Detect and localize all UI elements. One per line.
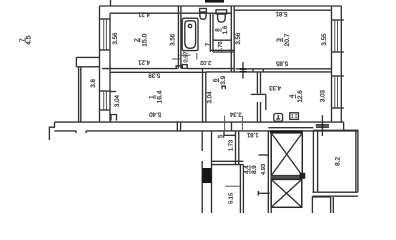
dim 3.04 room1 left	[114, 94, 121, 106]
window sill tick room1	[110, 91, 116, 93]
WC right wall	[230, 6, 232, 72]
vent block black bar top	[205, 0, 224, 3]
svg-text:2.02: 2.02	[200, 59, 211, 65]
label 5 lobby	[217, 134, 224, 138]
shaft divider wall	[271, 176, 302, 180]
svg-text:0.97: 0.97	[183, 51, 189, 62]
wire top inner wall left	[110, 12, 231, 14]
dim 3.56 room2 right	[170, 33, 177, 45]
svg-text:12.6: 12.6	[297, 90, 304, 103]
svg-text:3.56: 3.56	[170, 33, 177, 45]
junction marker 1	[242, 62, 244, 79]
wall between room 2 and room 1 upper line	[102, 68, 178, 70]
label corridor 6	[212, 75, 227, 84]
junction marker 2	[321, 115, 323, 136]
elevator shaft 1	[270, 130, 303, 133]
corridor band upper line	[55, 121, 344, 123]
kitchen sink	[274, 114, 283, 122]
svg-text:1.81: 1.81	[246, 131, 258, 138]
loggia top wall	[76, 56, 99, 58]
svg-text:3.56: 3.56	[112, 32, 119, 44]
dim 4.33 kitchen top	[268, 84, 280, 91]
dim 2.02 bathroom	[200, 59, 211, 65]
bathroom WC divider wall	[209, 13, 211, 52]
stair wall A	[201, 131, 203, 151]
svg-text:8.2: 8.2	[334, 157, 341, 166]
dim 4.21 room2 bottom	[137, 59, 149, 66]
dim 1.73 lobby	[228, 140, 234, 151]
svg-text:4.5: 4.5	[25, 35, 32, 45]
dim 3.03 kitchen right	[319, 89, 326, 101]
dim 5.81 room3 top	[275, 10, 287, 17]
short wall line lobby	[259, 154, 269, 156]
label loggia 3.8	[90, 79, 97, 88]
window room 1 glazing	[103, 91, 105, 110]
wire top inner wall right	[234, 9, 331, 11]
label kitchen 4	[289, 90, 304, 103]
label room 1	[149, 90, 164, 103]
svg-text:8.9: 8.9	[251, 165, 258, 174]
corridor door jambs	[75, 131, 77, 133]
wall B lower	[239, 165, 241, 213]
svg-text:5.15: 5.15	[229, 193, 235, 204]
room 8.2 left wall	[312, 130, 314, 192]
dim 5.15 hall	[229, 193, 235, 204]
dim 3.55 room3 right	[321, 33, 328, 45]
svg-text:4.93: 4.93	[261, 164, 267, 175]
svg-text:1.6: 1.6	[222, 25, 229, 34]
svg-text:3: 3	[276, 38, 283, 42]
svg-text:5.81: 5.81	[275, 10, 287, 17]
wire top outer wall	[100, 5, 342, 7]
apartment entry door jambs	[176, 122, 178, 131]
corridor left step	[49, 122, 54, 140]
svg-text:3.55: 3.55	[321, 33, 328, 45]
label hall 4.4 8.9	[244, 165, 258, 174]
wire left inner wall	[109, 13, 111, 122]
vestibule below 8.2	[312, 196, 330, 198]
svg-text:4.33: 4.33	[268, 84, 280, 91]
elevator hall front line	[268, 127, 313, 129]
svg-text:2: 2	[133, 38, 140, 42]
svg-text:4.21: 4.21	[137, 59, 149, 66]
dimension tick shaft	[258, 192, 270, 194]
room 8.2 bottom wall	[312, 191, 358, 193]
dim 4.21 room2 top	[137, 11, 149, 18]
svg-text:3.34: 3.34	[229, 111, 241, 118]
bathroom left wall	[177, 6, 179, 69]
label room 7 balcony	[19, 35, 33, 45]
svg-text:20.7: 20.7	[284, 33, 291, 46]
dim tick hall 5.15	[225, 185, 240, 187]
wall B	[235, 131, 237, 165]
svg-text:3.8: 3.8	[90, 79, 97, 88]
wire left outer wall	[99, 6, 101, 122]
elevator shaft 2	[271, 179, 302, 207]
label WC 8	[215, 25, 229, 34]
svg-text:5.85: 5.85	[275, 59, 287, 66]
svg-text:5.40: 5.40	[149, 111, 161, 118]
leader line a	[224, 116, 226, 132]
leader line b	[241, 116, 243, 131]
svg-text:3.03: 3.03	[319, 89, 326, 101]
dim 5.85 room3 bottom	[275, 59, 287, 66]
dim 3.56 room2 left	[112, 32, 119, 44]
bathroom door jamb	[176, 66, 181, 69]
right step outline	[344, 122, 359, 130]
svg-text:15.0: 15.0	[141, 33, 148, 46]
svg-text:3.04: 3.04	[207, 91, 214, 103]
svg-text:6: 6	[212, 78, 219, 82]
dim tick bathroom a	[172, 58, 181, 60]
dim 1.81 lobby	[246, 131, 258, 138]
room 1 right wall	[202, 69, 204, 122]
dim tick bathroom c	[196, 53, 198, 60]
WC bottom wall	[213, 39, 231, 41]
wall A black bar	[202, 168, 211, 183]
loggia left wall	[78, 67, 80, 122]
label room 2	[133, 33, 148, 46]
svg-text:4.21: 4.21	[137, 11, 149, 18]
wall room3 bottom	[236, 68, 332, 70]
dim tick bathroom b	[180, 54, 191, 56]
label room 3	[276, 33, 291, 46]
bathtub	[182, 18, 198, 50]
window room 2 glazing	[103, 19, 105, 50]
elevator shaft left wall	[267, 131, 269, 213]
bathroom door leaf	[182, 65, 187, 69]
svg-text:5.39: 5.39	[148, 71, 160, 78]
wall between room 2 and room 1 lower line	[110, 71, 206, 73]
door jambs room3	[252, 69, 254, 72]
wire stub above top wall	[110, 0, 112, 6]
dim 0.76 WC	[218, 41, 224, 52]
label room 8.2	[334, 157, 341, 166]
svg-text:3.04: 3.04	[114, 94, 121, 106]
lobby cell top wall	[224, 134, 236, 136]
kitchen stove	[290, 113, 299, 120]
dim 3.04 room1 right	[207, 91, 214, 103]
svg-text:4: 4	[289, 94, 296, 98]
dim 0.97 bathroom	[183, 51, 189, 62]
corridor band lower line	[55, 130, 77, 132]
svg-text:3.9: 3.9	[220, 75, 227, 84]
kitchen left wall	[256, 72, 258, 94]
svg-text:16.4: 16.4	[157, 90, 164, 103]
svg-text:1.73: 1.73	[228, 140, 234, 151]
svg-text:3.56: 3.56	[235, 32, 242, 44]
kitchen door leaf	[251, 93, 266, 95]
svg-text:0.76: 0.76	[218, 41, 224, 52]
label bathroom 7	[205, 42, 212, 46]
lobby cell bottom wall	[212, 160, 244, 162]
dim 3.56 room3 left	[235, 32, 242, 44]
dim 4.93 hall	[261, 164, 267, 175]
balcony door jamb room 1	[111, 115, 117, 121]
WC toilet	[216, 10, 227, 14]
right outer wall	[331, 6, 333, 122]
dim 5.40 room1 bottom	[149, 111, 161, 118]
window room 3	[334, 20, 336, 52]
small door bracket corridor	[222, 86, 225, 89]
dim 5.39 room1 top	[148, 71, 160, 78]
dim 3.34 entry	[229, 111, 241, 118]
svg-text:4.4: 4.4	[244, 165, 251, 174]
corridor jog	[231, 122, 233, 131]
svg-text:1: 1	[149, 95, 156, 99]
bathroom sink	[200, 9, 207, 13]
window kitchen	[334, 76, 336, 108]
room 8.2 right wall	[355, 130, 357, 192]
